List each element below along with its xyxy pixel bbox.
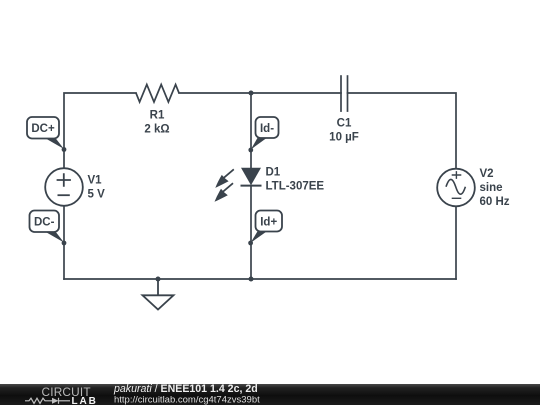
svg-text:10 µF: 10 µF	[329, 132, 359, 144]
flag Id+	[251, 211, 282, 243]
flag DC-	[30, 211, 65, 243]
svg-text:LTL-307EE: LTL-307EE	[266, 181, 325, 193]
svg-text:sine: sine	[480, 182, 503, 194]
wire top-left (V1 top to R1 left)	[64, 93, 136, 168]
label R1 value	[144, 110, 169, 136]
node ground junction	[156, 277, 161, 282]
svg-text:LAB: LAB	[72, 396, 98, 405]
voltage source V1	[45, 168, 83, 206]
capacitor C1	[341, 75, 348, 112]
svg-text:2 kΩ: 2 kΩ	[144, 124, 169, 136]
svg-text:V1: V1	[88, 175, 103, 187]
svg-text:DC+: DC+	[31, 123, 55, 135]
svg-text:C1: C1	[337, 118, 352, 130]
flag Id-	[251, 117, 279, 150]
footer bar	[0, 384, 540, 405]
svg-text:D1: D1	[266, 167, 281, 179]
wire middle lower (D1 cathode to bottom rail)	[250, 186, 252, 280]
svg-text:R1: R1	[150, 110, 165, 122]
node DC+	[62, 147, 67, 152]
LED D1	[215, 168, 262, 202]
node top junction	[249, 91, 254, 96]
label C1 value	[329, 118, 359, 144]
voltage source V2	[437, 169, 475, 207]
label V1 value	[88, 175, 106, 201]
label D1 value	[266, 167, 325, 193]
label V2 value	[480, 168, 510, 208]
svg-text:Id+: Id+	[260, 216, 277, 228]
wire right-bottom (V2 bottom to bottom rail)	[455, 207, 457, 280]
svg-text:Id-: Id-	[260, 123, 274, 135]
node Id-	[248, 148, 253, 153]
footer logo glyph	[25, 398, 70, 404]
svg-text:http://circuitlab.com/cg4t74zv: http://circuitlab.com/cg4t74zvs39bt	[114, 395, 260, 405]
svg-text:V2: V2	[480, 168, 494, 180]
svg-text:DC-: DC-	[34, 217, 55, 229]
wire left-bottom (V1 bottom to bottom rail)	[63, 206, 65, 279]
wire middle upper (junction to D1 anode)	[250, 93, 252, 168]
node bottom junction	[249, 277, 254, 282]
wire top-right (C1 right to V2 top)	[348, 93, 457, 169]
svg-text:5 V: 5 V	[88, 189, 106, 201]
wire top-middle (R1 right to C1 left)	[179, 92, 341, 94]
ground	[143, 281, 174, 310]
resistor R1	[136, 85, 179, 103]
svg-text:60 Hz: 60 Hz	[480, 196, 510, 208]
node DC-	[62, 241, 67, 246]
wire bottom rail	[64, 278, 456, 280]
flag DC+	[27, 117, 64, 149]
svg-text:pakurati / ENEE101 1.4 2c, 2d: pakurati / ENEE101 1.4 2c, 2d	[113, 383, 258, 395]
node Id+	[248, 241, 253, 246]
